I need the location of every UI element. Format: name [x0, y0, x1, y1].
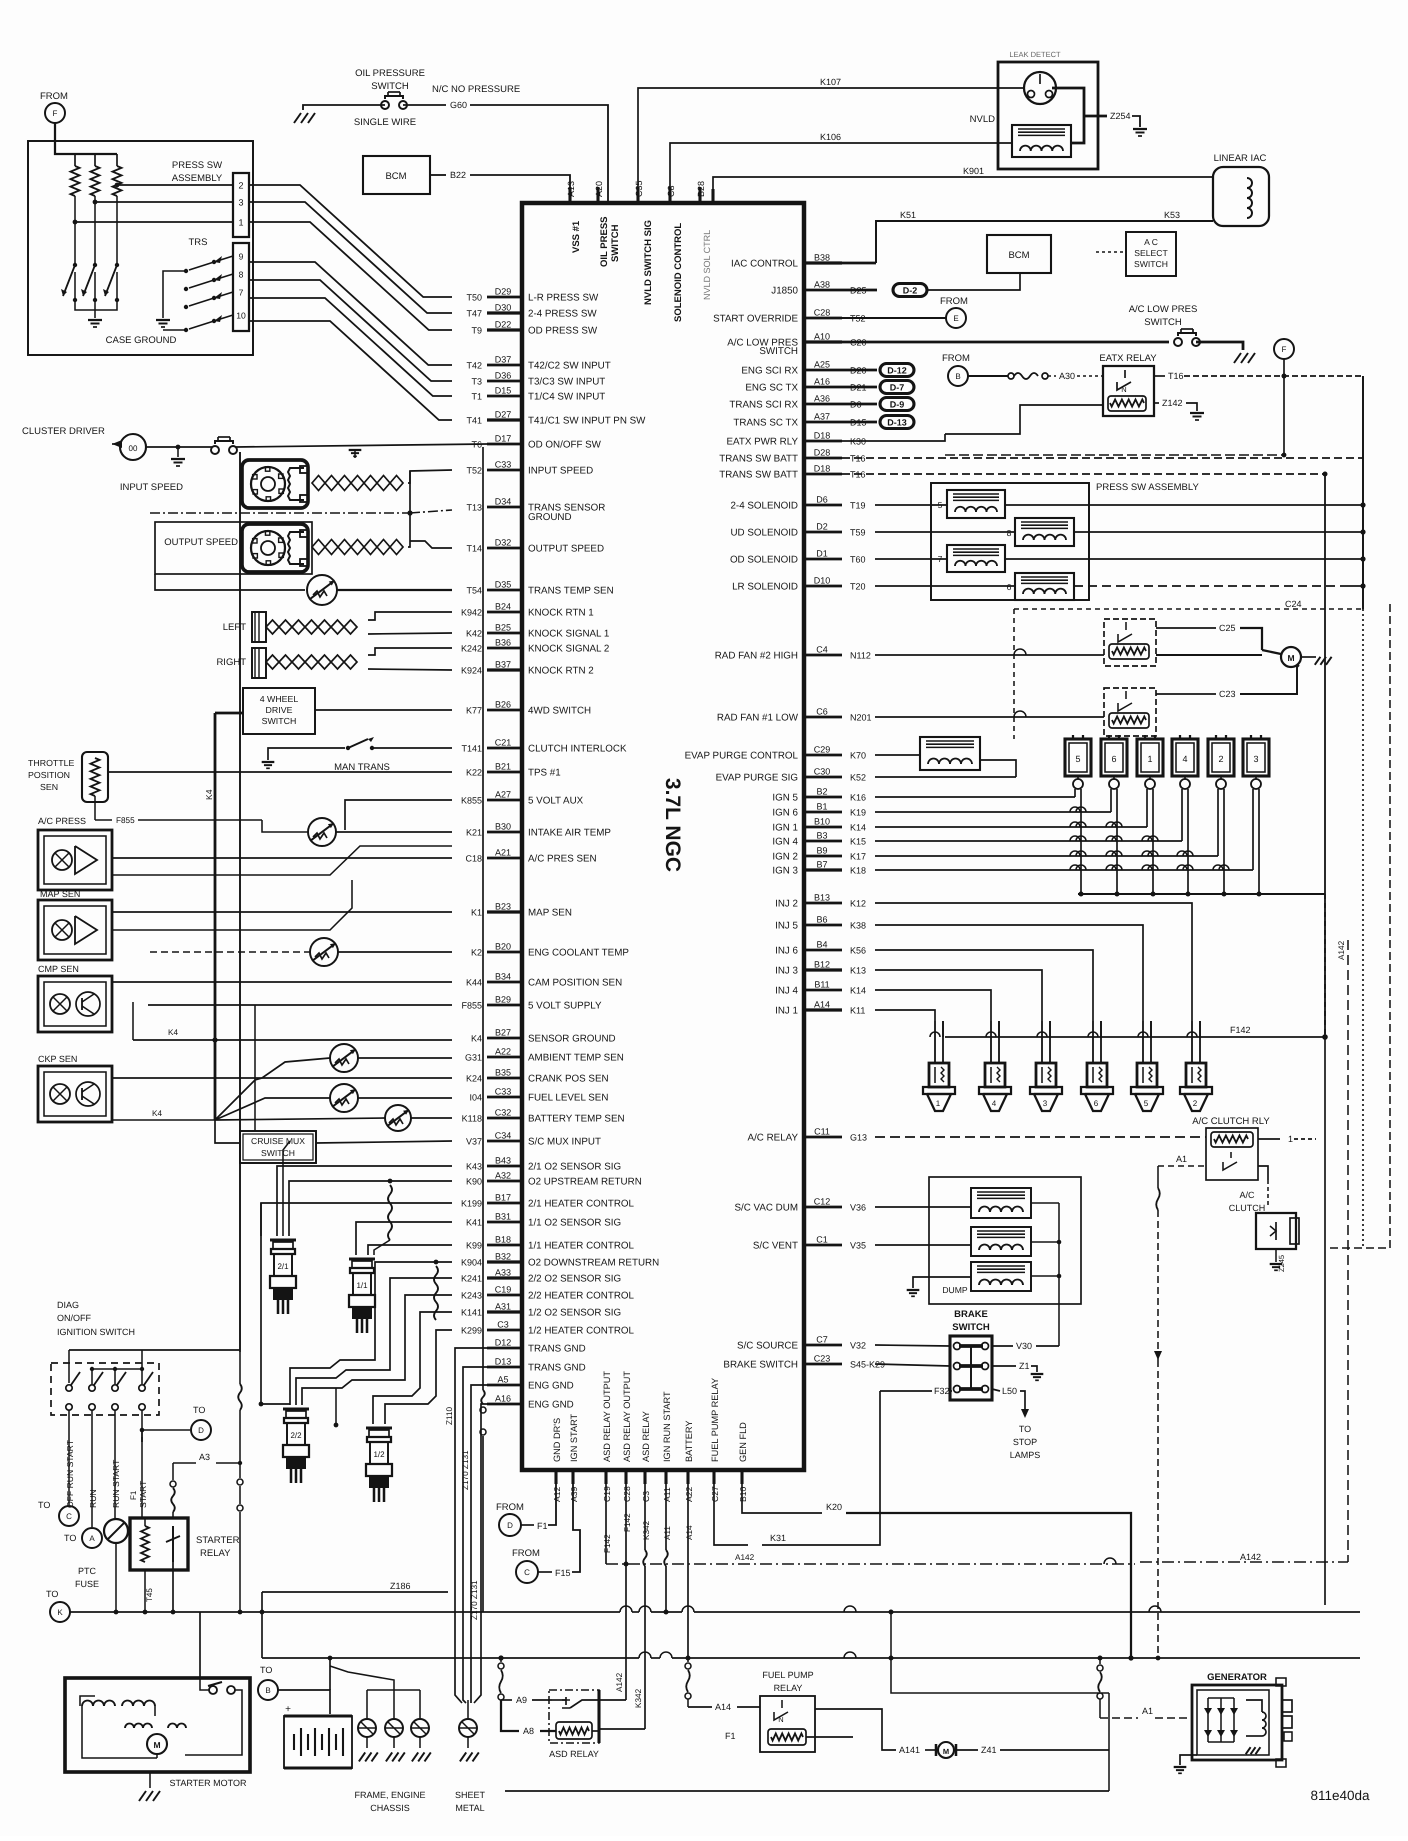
svg-text:A33: A33	[495, 1268, 511, 1278]
wire T52 / pin C28	[804, 317, 842, 320]
svg-text:5: 5	[1075, 754, 1080, 764]
svg-text:1: 1	[936, 1099, 941, 1108]
wire F855 / pin B29	[487, 1004, 522, 1007]
Z142 ground	[1154, 402, 1159, 404]
svg-text:S/C VENT: S/C VENT	[753, 1241, 798, 1252]
svg-text:K12: K12	[850, 899, 866, 909]
svg-text:G13: G13	[850, 1133, 867, 1143]
svg-text:FUEL PUMP RELAY: FUEL PUMP RELAY	[710, 1378, 720, 1462]
svg-text:START OVERRIDE: START OVERRIDE	[713, 314, 798, 325]
LR solenoid	[1015, 573, 1074, 600]
output speed sensor	[155, 522, 312, 574]
svg-text:STARTER MOTOR: STARTER MOTOR	[169, 1778, 247, 1788]
svg-text:K4: K4	[204, 789, 214, 800]
svg-text:C33: C33	[495, 460, 512, 470]
svg-text:A142: A142	[735, 1553, 755, 1562]
svg-text:A/C RELAY: A/C RELAY	[748, 1133, 799, 1144]
BCM box (right)	[987, 235, 1051, 273]
svg-text:B26: B26	[495, 700, 511, 710]
svg-text:NVLD: NVLD	[970, 114, 995, 125]
svg-text:K904: K904	[461, 1258, 482, 1268]
generator connector tabs	[1282, 1700, 1292, 1712]
svg-text:D35: D35	[495, 580, 512, 590]
svg-text:K44: K44	[466, 978, 482, 988]
wire K17 / pin B9	[804, 855, 842, 858]
svg-text:A22: A22	[495, 1047, 511, 1057]
svg-text:PTC: PTC	[78, 1566, 97, 1576]
svg-text:C3: C3	[641, 1491, 651, 1502]
svg-text:C34: C34	[495, 1131, 512, 1141]
intake air temp gauge	[308, 818, 336, 846]
battery temp gauge	[385, 1105, 411, 1131]
svg-text:K342: K342	[642, 1520, 651, 1540]
svg-text:INPUT SPEED: INPUT SPEED	[528, 466, 593, 477]
svg-text:811e40da: 811e40da	[1310, 1788, 1370, 1803]
svg-text:CASE GROUND: CASE GROUND	[106, 335, 177, 346]
svg-text:Z1: Z1	[1019, 1361, 1030, 1371]
wire T1 / pin D15	[487, 395, 522, 398]
svg-text:T141: T141	[461, 744, 482, 754]
svg-text:D-13: D-13	[887, 418, 907, 428]
svg-text:EATX PWR RLY: EATX PWR RLY	[727, 437, 799, 448]
svg-text:K19: K19	[850, 808, 866, 818]
wire G31 / pin A22	[487, 1056, 522, 1059]
knock wires left	[368, 612, 452, 620]
svg-text:T42: T42	[466, 361, 482, 371]
2/1 heater wire	[261, 1203, 452, 1236]
svg-text:T20: T20	[850, 582, 866, 592]
wire V35 / pin C1	[804, 1244, 842, 1247]
svg-text:6: 6	[1094, 1099, 1099, 1108]
svg-text:B2: B2	[816, 787, 827, 797]
eng coolant temp gauge	[310, 938, 338, 966]
UD solenoid	[1015, 518, 1074, 546]
evap purge solenoid	[920, 737, 980, 770]
svg-text:IGN 4: IGN 4	[772, 837, 798, 848]
svg-text:2: 2	[1193, 1099, 1198, 1108]
wire T52 / pin C33	[487, 469, 522, 472]
right bus x=1363	[1362, 376, 1364, 609]
wire ENG GND / pin A5	[487, 1384, 522, 1387]
svg-text:2/2 O2 SENSOR SIG: 2/2 O2 SENSOR SIG	[528, 1274, 621, 1285]
PCM top pins A13 A20 C35 C8 B28	[568, 187, 571, 203]
5 volt aux wire	[345, 800, 452, 830]
svg-text:K51: K51	[900, 210, 916, 220]
svg-text:K90: K90	[466, 1177, 482, 1187]
wire K99 / pin B18	[487, 1244, 522, 1247]
svg-text:C27: C27	[710, 1486, 720, 1502]
starter solenoid contacts	[209, 1686, 217, 1694]
wire F32	[880, 1390, 932, 1392]
wire K90 / pin A32	[487, 1180, 522, 1183]
svg-text:CRUISE MUX: CRUISE MUX	[251, 1136, 305, 1146]
svg-text:CLUTCH: CLUTCH	[1229, 1203, 1266, 1213]
svg-text:A142: A142	[615, 1672, 624, 1692]
svg-text:B17: B17	[495, 1193, 511, 1203]
left tall O2 ground wire	[261, 1203, 290, 1404]
A142 dash-dot horizontal	[606, 1563, 1135, 1565]
sensor ground row K4	[133, 1039, 452, 1041]
wire ign row 827	[875, 826, 1147, 828]
ground under starter motor	[149, 1772, 151, 1788]
svg-text:INJ 5: INJ 5	[775, 921, 798, 932]
svg-text:5 VOLT AUX: 5 VOLT AUX	[528, 796, 584, 807]
svg-text:Z245: Z245	[1277, 1255, 1286, 1272]
x=483 vertical wire	[482, 447, 484, 1390]
ignition switch pole 92	[91, 1369, 93, 1384]
wire K15 / pin B3	[804, 840, 842, 843]
svg-text:3: 3	[1043, 1099, 1048, 1108]
svg-text:A: A	[89, 1534, 95, 1543]
starter relay	[130, 1518, 188, 1570]
wire ENG GND / pin A16	[487, 1403, 522, 1406]
wire T6 / pin D17	[487, 443, 522, 446]
svg-text:FUEL PUMP: FUEL PUMP	[762, 1670, 813, 1680]
svg-text:C35: C35	[634, 180, 644, 197]
svg-text:8: 8	[1007, 528, 1012, 538]
svg-text:FROM: FROM	[940, 296, 968, 307]
wire T60 / pin D1	[804, 558, 842, 561]
svg-text:STOP: STOP	[1013, 1437, 1037, 1447]
svg-text:NVLD SWITCH SIG: NVLD SWITCH SIG	[643, 220, 654, 305]
svg-text:A39: A39	[569, 1486, 579, 1502]
svg-text:ENG COOLANT TEMP: ENG COOLANT TEMP	[528, 948, 629, 959]
svg-text:BATTERY TEMP SEN: BATTERY TEMP SEN	[528, 1114, 625, 1125]
svg-text:C23: C23	[814, 1354, 831, 1364]
svg-text:BCM: BCM	[1008, 250, 1029, 261]
A3 wire	[173, 1462, 196, 1464]
svg-text:D34: D34	[495, 497, 512, 507]
ground symbol above input speed	[354, 450, 356, 458]
wire inj row 903	[875, 903, 1192, 1021]
starter motor feed	[199, 1612, 201, 1678]
wire from ignition col to TO C	[68, 1442, 70, 1505]
svg-text:A13: A13	[566, 181, 576, 197]
A1 wire + squiggle down	[1158, 1165, 1206, 1167]
svg-text:N112: N112	[850, 651, 871, 661]
svg-text:1/1 O2 SENSOR SIG: 1/1 O2 SENSOR SIG	[528, 1218, 621, 1229]
svg-text:A12: A12	[552, 1486, 562, 1502]
svg-text:B32: B32	[495, 1252, 511, 1262]
wire TRS/press pin to PCM row 313	[249, 202, 452, 313]
svg-text:B38: B38	[814, 253, 830, 263]
svg-text:Z254: Z254	[1110, 111, 1131, 121]
injector 6	[1092, 1021, 1094, 1063]
svg-text:9: 9	[239, 252, 244, 262]
svg-text:F142: F142	[623, 1513, 632, 1532]
A142 bus x=1348	[1347, 940, 1349, 1562]
svg-text:INJ 3: INJ 3	[775, 966, 798, 977]
wire inj row 990	[875, 990, 991, 1021]
radiator fan relay box (dashed enclosure)	[1013, 609, 1015, 739]
svg-text:KNOCK RTN 2: KNOCK RTN 2	[528, 666, 594, 677]
A142 riser from ASD relay	[599, 1699, 626, 1701]
svg-text:2-4 PRESS SW: 2-4 PRESS SW	[528, 309, 597, 320]
S/C vac dump solenoid	[971, 1188, 1031, 1218]
svg-text:D28: D28	[814, 448, 831, 458]
svg-text:1/2 HEATER CONTROL: 1/2 HEATER CONTROL	[528, 1326, 635, 1337]
ignition feed vertical from cluster area	[239, 452, 241, 1350]
wire K942 / pin B24	[487, 611, 522, 614]
wire K199 / pin B17	[487, 1202, 522, 1205]
svg-text:OIL PRESSURE: OIL PRESSURE	[355, 68, 425, 79]
svg-text:RAD FAN #1 LOW: RAD FAN #1 LOW	[717, 713, 799, 724]
svg-text:K31: K31	[770, 1533, 786, 1543]
wire TRS/press pin to PCM row 365	[249, 262, 452, 365]
svg-text:LINEAR IAC: LINEAR IAC	[1214, 153, 1267, 164]
brake wires left	[875, 1345, 950, 1346]
svg-text:BRAKE SWITCH: BRAKE SWITCH	[723, 1360, 798, 1371]
svg-text:C1: C1	[816, 1235, 828, 1245]
wire K299 / pin C3	[487, 1329, 522, 1332]
ground (case)	[88, 319, 102, 321]
svg-text:+: +	[285, 1704, 291, 1715]
svg-text:A25: A25	[814, 360, 830, 370]
svg-text:SWITCH: SWITCH	[610, 224, 621, 262]
svg-text:7: 7	[239, 288, 244, 298]
connector pins 2 3 1	[233, 173, 249, 237]
svg-text:CKP SEN: CKP SEN	[38, 1054, 77, 1064]
wire K11 / pin A14	[804, 1008, 842, 1011]
svg-text:CHASSIS: CHASSIS	[370, 1803, 410, 1813]
wire TRS/press pin to PCM row 420	[249, 321, 452, 420]
svg-text:4WD SWITCH: 4WD SWITCH	[528, 706, 591, 717]
svg-text:K299: K299	[461, 1326, 482, 1336]
svg-text:D37: D37	[495, 355, 512, 365]
svg-text:INPUT SPEED: INPUT SPEED	[120, 482, 183, 493]
svg-text:1/1: 1/1	[356, 1281, 368, 1290]
K30 dashdot row to 1284	[945, 454, 1284, 456]
svg-text:THROTTLE: THROTTLE	[28, 758, 75, 768]
svg-text:OFF RUN START: OFF RUN START	[65, 1439, 75, 1508]
svg-text:VSS #1: VSS #1	[571, 220, 582, 253]
TRS contact	[212, 296, 216, 300]
wire inj row 925	[875, 925, 1143, 1021]
svg-text:C: C	[66, 1512, 72, 1521]
svg-text:00: 00	[129, 444, 138, 453]
svg-text:ASD RELAY: ASD RELAY	[641, 1411, 651, 1462]
bus 1610 hops right	[844, 1606, 856, 1612]
wire C20 / pin A10	[804, 340, 842, 343]
wire K924 / pin B37	[487, 668, 522, 671]
svg-text:A142: A142	[1337, 940, 1346, 960]
battery	[278, 1690, 330, 1714]
wire K16 / pin B2	[804, 796, 842, 799]
svg-text:K20: K20	[826, 1502, 842, 1512]
svg-text:S/C VAC DUM: S/C VAC DUM	[734, 1203, 798, 1214]
svg-text:A/C CLUTCH RLY: A/C CLUTCH RLY	[1192, 1116, 1270, 1127]
rad fan relay #1	[1104, 688, 1156, 736]
svg-text:TO: TO	[38, 1500, 50, 1510]
wire pin3 row	[95, 201, 233, 203]
wire C23	[1156, 693, 1216, 695]
svg-text:K243: K243	[461, 1291, 482, 1301]
svg-text:K18: K18	[850, 866, 866, 876]
svg-text:B7: B7	[816, 860, 827, 870]
svg-text:EVAP PURGE SIG: EVAP PURGE SIG	[716, 773, 798, 784]
svg-text:C28: C28	[814, 308, 831, 318]
svg-text:Z170 Z131: Z170 Z131	[461, 1450, 470, 1490]
svg-text:T16: T16	[1168, 371, 1184, 381]
wire K13 / pin B12	[804, 968, 842, 971]
svg-text:D22: D22	[495, 320, 512, 330]
wire T16 / pin D18	[804, 473, 842, 476]
svg-text:Z142: Z142	[1162, 398, 1183, 408]
vertical feed to ignition switch	[239, 452, 241, 1352]
svg-text:1/1 HEATER CONTROL: 1/1 HEATER CONTROL	[528, 1241, 635, 1252]
svg-text:D13: D13	[495, 1357, 512, 1367]
wire T59 / pin D2	[804, 531, 842, 534]
svg-text:IGN 2: IGN 2	[772, 852, 798, 863]
wire K21 / pin B30	[487, 831, 522, 834]
svg-text:V30: V30	[1016, 1341, 1032, 1351]
wire G13 / pin C11	[804, 1136, 842, 1139]
svg-text:B6: B6	[816, 915, 827, 925]
wire TRS/press pin to PCM row 381	[249, 280, 452, 381]
svg-text:N201: N201	[850, 713, 872, 723]
NVLD assembly box	[998, 62, 1098, 169]
svg-text:6: 6	[1007, 582, 1012, 592]
wire D25 w/ D-2 pill	[842, 289, 877, 292]
TPS wiper to PCM	[108, 771, 452, 773]
svg-text:F855: F855	[116, 816, 135, 825]
svg-text:K1: K1	[471, 908, 482, 918]
wire K901	[713, 177, 1213, 189]
svg-text:OIL PRESS: OIL PRESS	[599, 216, 610, 267]
svg-text:C25: C25	[1219, 623, 1236, 633]
squiggle link from bus to A1 wire	[1099, 1658, 1101, 1664]
coil common bus	[1078, 893, 1325, 895]
svg-text:A8: A8	[523, 1726, 534, 1736]
svg-text:B13: B13	[814, 893, 830, 903]
svg-text:B1: B1	[816, 802, 827, 812]
svg-text:T42/C2 SW INPUT: T42/C2 SW INPUT	[528, 361, 611, 372]
svg-text:MAP SEN: MAP SEN	[528, 908, 572, 919]
svg-text:K13: K13	[850, 966, 866, 976]
CKP ground wire K4	[112, 1119, 215, 1121]
svg-text:N: N	[778, 1715, 783, 1724]
svg-text:I04: I04	[469, 1093, 482, 1103]
svg-text:C28: C28	[622, 1486, 632, 1502]
wire K243 / pin C19	[487, 1294, 522, 1297]
svg-text:SENSOR GROUND: SENSOR GROUND	[528, 1034, 616, 1045]
NVLD switch circle	[1024, 72, 1056, 104]
wire K1 / pin B23	[487, 910, 522, 913]
svg-text:L-R PRESS SW: L-R PRESS SW	[528, 293, 599, 304]
svg-text:B43: B43	[495, 1156, 511, 1166]
svg-text:C18: C18	[465, 854, 482, 864]
rad fan #1 wire N201	[875, 716, 1104, 718]
svg-text:UD SOLENOID: UD SOLENOID	[730, 528, 798, 539]
wire A39 ign start to F15	[572, 1484, 580, 1572]
svg-text:B25: B25	[495, 623, 511, 633]
svg-text:K141: K141	[461, 1308, 482, 1318]
svg-text:FRAME, ENGINE: FRAME, ENGINE	[354, 1790, 425, 1800]
wire K118 / pin C32	[487, 1117, 522, 1120]
TRS ground wire	[163, 271, 186, 318]
svg-text:E: E	[953, 314, 958, 323]
wire output speed	[408, 541, 410, 547]
wire K241 / pin A33	[487, 1276, 522, 1279]
wire K43 / pin B43	[487, 1165, 522, 1168]
svg-text:A31: A31	[495, 1302, 511, 1312]
wire K44 / pin B34	[487, 981, 522, 984]
K31 wire from fuel pump relay pin	[714, 1484, 748, 1545]
svg-text:A9: A9	[516, 1695, 527, 1705]
svg-text:K21: K21	[466, 828, 482, 838]
ignition coil 4	[1172, 739, 1198, 776]
svg-text:V35: V35	[850, 1241, 866, 1251]
svg-text:B28: B28	[696, 181, 706, 197]
svg-text:D2: D2	[816, 522, 828, 532]
wire I04 / pin C33	[487, 1096, 522, 1099]
PCM module 3.7L NGC	[522, 203, 804, 1470]
svg-text:K106: K106	[820, 132, 841, 142]
svg-text:A5: A5	[497, 1375, 508, 1385]
svg-text:T19: T19	[850, 501, 866, 511]
PCM bottom pins	[554, 1470, 557, 1484]
bolt ground 394	[393, 1690, 395, 1718]
svg-text:SHEET: SHEET	[455, 1790, 486, 1800]
svg-text:LEFT: LEFT	[223, 622, 246, 633]
svg-text:TO: TO	[260, 1665, 272, 1675]
a/c press wires	[112, 857, 452, 859]
svg-text:2-4 SOLENOID: 2-4 SOLENOID	[730, 501, 798, 512]
wire T19 / pin D6	[804, 504, 842, 507]
wire S45-K29 / pin C23	[804, 1363, 842, 1366]
svg-text:CRANK POS SEN: CRANK POS SEN	[528, 1074, 609, 1085]
svg-text:D32: D32	[495, 538, 512, 548]
svg-text:F: F	[1282, 345, 1287, 354]
svg-text:C11: C11	[814, 1127, 830, 1137]
svg-text:RIGHT: RIGHT	[216, 657, 246, 668]
bolt ground 420	[419, 1690, 421, 1718]
vertical from solenoids to brake area	[1031, 1202, 1059, 1204]
bolt ground 367	[366, 1690, 368, 1718]
svg-text:TO: TO	[46, 1589, 58, 1599]
svg-text:D27: D27	[495, 410, 512, 420]
wire L50 to stop lamps	[992, 1389, 1000, 1391]
OD on/off switch	[211, 446, 219, 454]
svg-text:1: 1	[238, 218, 243, 228]
wire to trans temp sen	[155, 574, 305, 590]
svg-text:B10: B10	[738, 1486, 748, 1502]
svg-text:K11: K11	[850, 1006, 865, 1016]
4 wheel drive switch	[243, 688, 315, 734]
svg-text:T54: T54	[466, 586, 482, 596]
svg-text:SELECT: SELECT	[1134, 248, 1168, 258]
svg-text:K77: K77	[466, 706, 482, 716]
svg-text:C33: C33	[495, 1087, 512, 1097]
svg-text:A21: A21	[495, 848, 511, 858]
rad fan #2 wire N112	[875, 654, 1104, 656]
svg-text:K42: K42	[466, 629, 482, 639]
svg-text:RUN: RUN	[88, 1489, 98, 1508]
svg-text:IAC CONTROL: IAC CONTROL	[731, 259, 799, 270]
TRANS SW BATT wires	[842, 457, 1363, 459]
svg-text:K99: K99	[466, 1241, 482, 1251]
purge sig wire	[875, 776, 1016, 778]
starter relay switch feed	[172, 1463, 174, 1480]
fuel level gauge	[330, 1084, 358, 1112]
svg-text:A/C PRES SEN: A/C PRES SEN	[528, 854, 597, 865]
svg-text:B29: B29	[495, 995, 511, 1005]
A1 wire to generator	[1100, 1717, 1138, 1719]
2-4 solenoid	[947, 490, 1005, 518]
svg-text:M: M	[943, 1747, 949, 1756]
svg-text:K342: K342	[634, 1688, 643, 1708]
svg-text:4: 4	[992, 1099, 997, 1108]
